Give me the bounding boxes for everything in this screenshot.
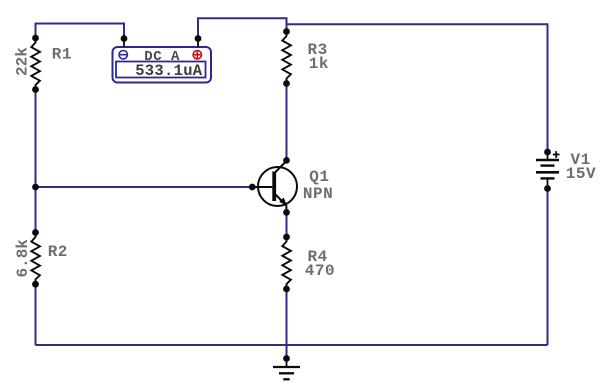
svg-text:15V: 15V xyxy=(566,165,596,183)
ammeter negative terminal xyxy=(119,35,127,59)
wire: R3 bottom to Q1 collector xyxy=(286,84,288,161)
ammeter U1 (DC A multimeter) xyxy=(113,47,212,83)
resistor R1 xyxy=(31,35,40,93)
wire: R4 bottom to ground rail xyxy=(286,289,288,345)
wire: ammeter positive terminal up and right to R3 top node xyxy=(198,18,287,38)
svg-text:DC A: DC A xyxy=(144,49,180,65)
wire: R1 top to ammeter negative terminal xyxy=(36,24,125,39)
junction dot Q1 emitter xyxy=(283,209,290,216)
wire: Q1 emitter to R4 top xyxy=(286,212,288,237)
svg-text:Q1: Q1 xyxy=(309,168,329,186)
wire: V1 negative terminal to ground rail xyxy=(547,189,549,346)
svg-text:22k: 22k xyxy=(14,47,32,76)
svg-text:R2: R2 xyxy=(48,243,68,261)
ground xyxy=(273,355,300,379)
ammeter positive terminal xyxy=(193,35,201,59)
svg-text:470: 470 xyxy=(305,262,335,280)
transistor Q1 xyxy=(252,161,297,212)
junction dot base divider node xyxy=(32,184,39,191)
wire: bottom ground rail xyxy=(36,344,548,346)
svg-text:NPN: NPN xyxy=(303,185,333,203)
resistor R4 xyxy=(282,234,291,293)
svg-text:R1: R1 xyxy=(52,46,72,64)
wire: R3 top node to V1 positive terminal xyxy=(287,24,548,152)
resistor R3 xyxy=(282,28,291,87)
wire: ground stem from rail to ground node xyxy=(286,345,288,359)
junction dot Q1 collector xyxy=(283,157,290,164)
wire: base rail from divider node to Q1 base xyxy=(36,186,253,188)
resistor R2 xyxy=(31,229,40,288)
wire: left vertical R1 bottom through base node to R2 top xyxy=(35,90,37,233)
battery V1 xyxy=(536,149,560,192)
svg-text:6.8k: 6.8k xyxy=(14,239,32,278)
wire: R2 bottom to ground rail xyxy=(35,284,37,345)
junction dot Q1 base xyxy=(249,184,256,191)
svg-text:1k: 1k xyxy=(309,55,329,73)
